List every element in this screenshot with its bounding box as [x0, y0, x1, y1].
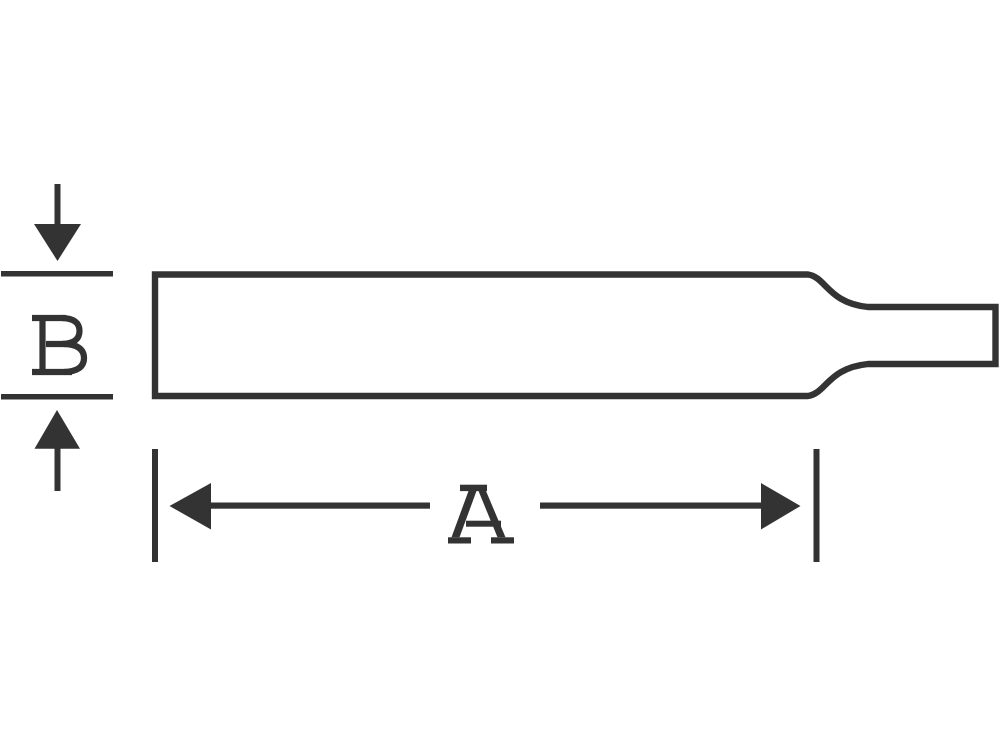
dimension tick left (A)	[152, 449, 158, 562]
letter B	[32, 315, 84, 375]
dimension tick right (A)	[814, 449, 820, 562]
A dimension line, left segment with arrowhead	[170, 483, 431, 530]
file body outline (blank with tang)	[155, 275, 996, 397]
down arrow (B dimension, top)	[34, 184, 81, 261]
letter A	[448, 485, 514, 544]
up arrow (B dimension, bottom)	[35, 410, 81, 491]
A dimension line, right segment with arrowhead	[540, 483, 801, 530]
extension line (top of B)	[1, 271, 113, 277]
extension line (bottom of B)	[1, 394, 113, 400]
